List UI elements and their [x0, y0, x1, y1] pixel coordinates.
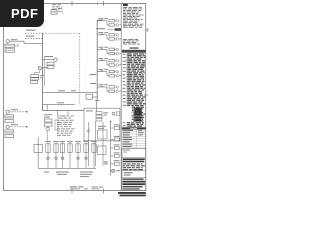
selector switch S2 — [105, 162, 108, 165]
aux label text 4 — [114, 152, 120, 153]
aux branch wire 4 — [111, 155, 115, 157]
bottom collector wire — [38, 167, 96, 169]
load box LD3b — [109, 52, 115, 54]
dashed panel boundary horizontal — [43, 32, 80, 34]
load box LD4b — [109, 64, 115, 66]
feeder reference text 1 — [26, 30, 36, 31]
bottom note text left — [44, 172, 49, 173]
load box LD5a — [109, 70, 115, 72]
relay K1 box — [47, 62, 54, 65]
wire bus to breaker CB2 — [97, 34, 107, 36]
load box LD1a — [109, 20, 115, 22]
breaker CB4 symbol — [101, 60, 103, 61]
spare branch dark tag text — [115, 28, 122, 31]
title block approvals box text — [123, 150, 130, 151]
load box LD6a — [109, 86, 115, 88]
drop wire x57 — [57, 111, 59, 115]
aux branch wire 1 — [111, 127, 115, 129]
external source G1 circle — [6, 110, 9, 113]
wire bus to breaker CB4 — [97, 60, 107, 62]
parts list dark stamp text — [135, 108, 142, 109]
title block outline — [122, 149, 146, 191]
starter branch wire 5 — [77, 142, 79, 168]
right margin zone text — [147, 29, 149, 32]
fork wire group 4 — [106, 61, 108, 65]
revision table lines — [122, 132, 146, 148]
column divider line — [120, 4, 122, 191]
dashed feeder wire 1 — [25, 32, 43, 34]
parts list white gap — [122, 107, 132, 123]
wire M2 to shunt — [35, 70, 40, 75]
load box LD6b — [109, 90, 115, 92]
load box LD4a — [109, 60, 115, 62]
contactor K5 stack 2 — [96, 115, 102, 118]
starter branch wire 3 — [62, 142, 64, 168]
inner wire x103 — [102, 122, 104, 166]
aux load box 2 — [114, 138, 119, 141]
breaker CB6 symbol — [101, 86, 103, 87]
breaker CB5 symbol — [101, 71, 103, 72]
dashed feeder wire 2 — [25, 38, 43, 40]
transformer T1 box — [34, 145, 42, 153]
load box LD1b — [109, 24, 115, 26]
indicator lamp DS6b — [116, 90, 119, 93]
aux label text 1 — [114, 124, 120, 125]
transformer T1 wire — [37, 137, 39, 168]
battery B1 label text — [11, 39, 17, 40]
title block line 2 — [122, 170, 146, 172]
terminal list text block — [57, 115, 60, 118]
fork wire group 5 — [106, 72, 108, 76]
title footer dark rows — [123, 179, 144, 180]
bus drop wire into panel — [96, 101, 98, 112]
aux load box 5 — [114, 162, 119, 165]
lamp DS2 label text — [119, 37, 121, 40]
notes text block — [123, 6, 127, 9]
shunt box 3 — [31, 81, 38, 84]
spare branch wire — [108, 29, 114, 31]
panel inlet lamp — [112, 112, 115, 115]
source G1 box 1 — [5, 115, 14, 118]
wire label text on C — [57, 102, 64, 103]
notes heading — [123, 4, 128, 6]
starter box ST6 — [84, 144, 88, 153]
inner wire x95 — [95, 121, 97, 166]
title text rows — [123, 163, 126, 164]
starter pilot circle 3 — [61, 157, 64, 160]
relay box K7 — [98, 146, 107, 155]
bus end bar — [95, 100, 100, 102]
disconnect switch S1 — [62, 9, 64, 13]
arrowhead G2 — [26, 126, 28, 128]
inner wire x88 — [88, 122, 90, 166]
tie wire DC bus to AC bus — [43, 92, 98, 94]
aux load box 4 — [114, 154, 119, 157]
breaker CB3 branch label text — [98, 47, 103, 48]
starter pilot circle 2 — [55, 157, 58, 160]
breaker CB2 branch label text — [98, 32, 103, 33]
starter label text 4 — [67, 140, 73, 143]
breaker CB6 branch label text — [98, 84, 103, 85]
battery B1 cell block 1 — [5, 44, 15, 47]
breaker CB2 symbol — [101, 34, 103, 35]
parts list title text — [130, 47, 139, 48]
bus mid label text — [90, 74, 97, 75]
starter label text 2 — [53, 140, 59, 143]
breaker CB1 branch label text — [98, 18, 103, 19]
starter label text 3 — [60, 140, 66, 143]
starter box ST2 — [54, 144, 58, 153]
indicator lamp DS4a — [116, 60, 119, 63]
feeder wire B — [43, 104, 76, 106]
starter branch wire 2 — [55, 142, 57, 168]
dashed wire source G1 — [9, 111, 28, 113]
border tick marks — [72, 1, 148, 194]
wire bus to meter M1 — [43, 59, 54, 61]
starter box ST3 — [60, 144, 64, 153]
indicator lamp DS2b — [116, 38, 119, 41]
junction node A — [110, 121, 112, 123]
starter box ST7 — [92, 144, 96, 153]
fork wire group 1 — [106, 21, 108, 25]
breaker CB4 branch label text — [98, 58, 103, 59]
indicator lamp DS3a — [116, 48, 119, 51]
starter branch wire 7 — [93, 142, 95, 168]
starter label text 5 — [75, 140, 81, 143]
starter pilot circle 6 — [85, 157, 88, 160]
AC distribution bus (vertical, right) — [96, 20, 98, 101]
source G2 box 1 — [5, 130, 14, 133]
PDF badge — [0, 0, 44, 27]
title block line 1 — [122, 157, 146, 159]
load box LD2b — [109, 38, 115, 40]
bottom note text mid — [56, 172, 69, 173]
starter label text 1 — [45, 140, 51, 143]
shunt label marks — [40, 75, 44, 76]
wire bus to breaker CB1 — [97, 20, 107, 22]
indicator lamp DS2a — [116, 34, 119, 37]
fuse F1 box 2 — [45, 123, 53, 126]
current transformer box CT1 — [86, 94, 93, 99]
indicator lamp DS6a — [116, 86, 119, 89]
indicator lamp DS3b — [116, 52, 119, 55]
relay K2 box — [47, 66, 54, 69]
source G1 box 2 — [5, 119, 14, 122]
breaker CB3 symbol — [101, 48, 103, 49]
breaker CB1 symbol — [101, 20, 103, 21]
inner text rows — [98, 126, 106, 127]
parts list rows text — [127, 53, 132, 54]
load box LD5b — [109, 75, 115, 77]
footer micro text center — [70, 186, 77, 187]
load box LD2a — [109, 34, 115, 36]
footer dark strip text — [118, 192, 146, 194]
DC bus (vertical, left) — [42, 33, 44, 110]
fork wire group 3 — [106, 49, 108, 53]
wire bus to breaker CB3 — [97, 48, 107, 50]
meter M2 circle on bus — [38, 67, 41, 70]
meter M3 circle — [46, 127, 49, 130]
aux branch wire 3 — [111, 147, 115, 149]
starter branch wire 6 — [85, 142, 87, 168]
source G1 label text — [11, 109, 18, 110]
lamp DS3 label text — [119, 52, 121, 55]
breaker CB5 branch label text — [98, 69, 103, 70]
battery B1 stem wire — [7, 43, 9, 44]
fuse F1 box 1 — [45, 119, 53, 122]
branch label text — [45, 56, 53, 57]
title block line 3 — [122, 177, 146, 179]
indicator lamp DS1a — [116, 20, 119, 23]
aux branch wire 5 — [111, 163, 115, 165]
terminal list box — [55, 120, 58, 130]
fork wire group 6 — [106, 87, 108, 91]
aux branch wire 2 — [111, 139, 115, 141]
starter box ST5 — [76, 144, 80, 153]
source G2 label text — [11, 124, 18, 125]
panel enclosure box D — [84, 108, 120, 141]
shunt box 1 — [31, 75, 39, 78]
dashed panel boundary vertical — [79, 33, 81, 104]
fuse F1 label text — [44, 114, 52, 115]
lamp DS6 label text — [119, 90, 121, 93]
aux label text 3 — [114, 144, 120, 145]
lamp DS5 label text — [119, 74, 121, 77]
starter branch wire 1 — [47, 142, 49, 168]
wire M3 down — [46, 131, 48, 142]
spare branch label text — [96, 28, 105, 29]
starter label text 7 — [91, 140, 97, 143]
node label text — [58, 7, 62, 10]
bottom note text right — [80, 172, 93, 173]
starter pilot circle 5 — [77, 157, 80, 160]
load box LD3a — [109, 48, 115, 50]
sheet border frame — [4, 4, 146, 191]
battery B1 terminal circle — [6, 40, 9, 43]
lower distribution wire C — [43, 110, 85, 112]
company name dark text — [123, 158, 145, 160]
dashed wire source G2 — [9, 126, 28, 128]
wire bus to breaker CB6 — [97, 86, 107, 88]
revision header bar — [122, 127, 146, 129]
meter M1 circle — [54, 58, 57, 61]
external source G2 circle — [6, 125, 9, 128]
starter box ST4 — [68, 144, 72, 153]
arrowhead G1 — [26, 111, 28, 113]
starter label text 6 — [83, 140, 89, 143]
aux load box 1 — [114, 126, 119, 129]
revision column line — [136, 130, 138, 148]
wire battery to DC bus — [9, 41, 42, 43]
aux lamp DS7 label text — [116, 170, 120, 171]
shunt box 2 — [31, 78, 39, 80]
starter pilot circle 1 — [47, 157, 50, 160]
aux label text 2 — [114, 136, 120, 137]
battery charger U1 label text — [52, 3, 56, 6]
contactor K5 stack 1 — [96, 112, 102, 115]
parts list header bar — [122, 50, 146, 53]
stub wire at x47 — [46, 105, 48, 111]
drop wire x68 — [67, 111, 69, 115]
indicator lamp DS5a — [116, 70, 119, 73]
wire CT1 to bus — [93, 96, 98, 98]
relay box K6 — [98, 130, 108, 139]
bus top hook wire — [97, 19, 101, 21]
indicator lamp DS5b — [116, 75, 119, 78]
revision rows text — [123, 129, 134, 132]
wire bus to breaker CB5 — [97, 71, 107, 73]
wire from U1 — [57, 11, 62, 13]
parts list column line — [126, 53, 128, 128]
inner pilot circle — [87, 130, 89, 132]
starter branch wire 4 — [69, 142, 71, 168]
contactor stack label text — [103, 112, 108, 113]
contactor K5 stack 3 — [96, 118, 102, 121]
feeder reference text 2 — [26, 36, 34, 37]
branch label text 2 — [43, 67, 49, 68]
lamp DS1 label text — [119, 23, 121, 26]
notes sub block text — [123, 38, 127, 41]
indicator lamp DS4b — [116, 64, 119, 67]
battery B1 cell block 2 — [5, 49, 15, 52]
wire label text on tie — [58, 90, 65, 91]
indicator lamp DS1b — [116, 24, 119, 27]
aux load box 3 — [114, 146, 119, 149]
fork wire group 2 — [106, 35, 108, 39]
parts list qty column text — [123, 54, 126, 55]
parallel bus conductor — [43, 56, 45, 86]
lamp DS4 label text — [119, 63, 121, 66]
aux label text 5 — [114, 160, 120, 161]
aux lamp DS7 — [111, 170, 112, 172]
bus left label text — [90, 83, 96, 84]
source G2 box 2 — [5, 134, 14, 137]
aux bus wire (x110) — [110, 122, 112, 176]
starter box ST1 — [46, 144, 50, 153]
drawing number box text — [124, 172, 133, 173]
charger unit U1 — [51, 10, 57, 15]
box D title text — [86, 110, 93, 111]
